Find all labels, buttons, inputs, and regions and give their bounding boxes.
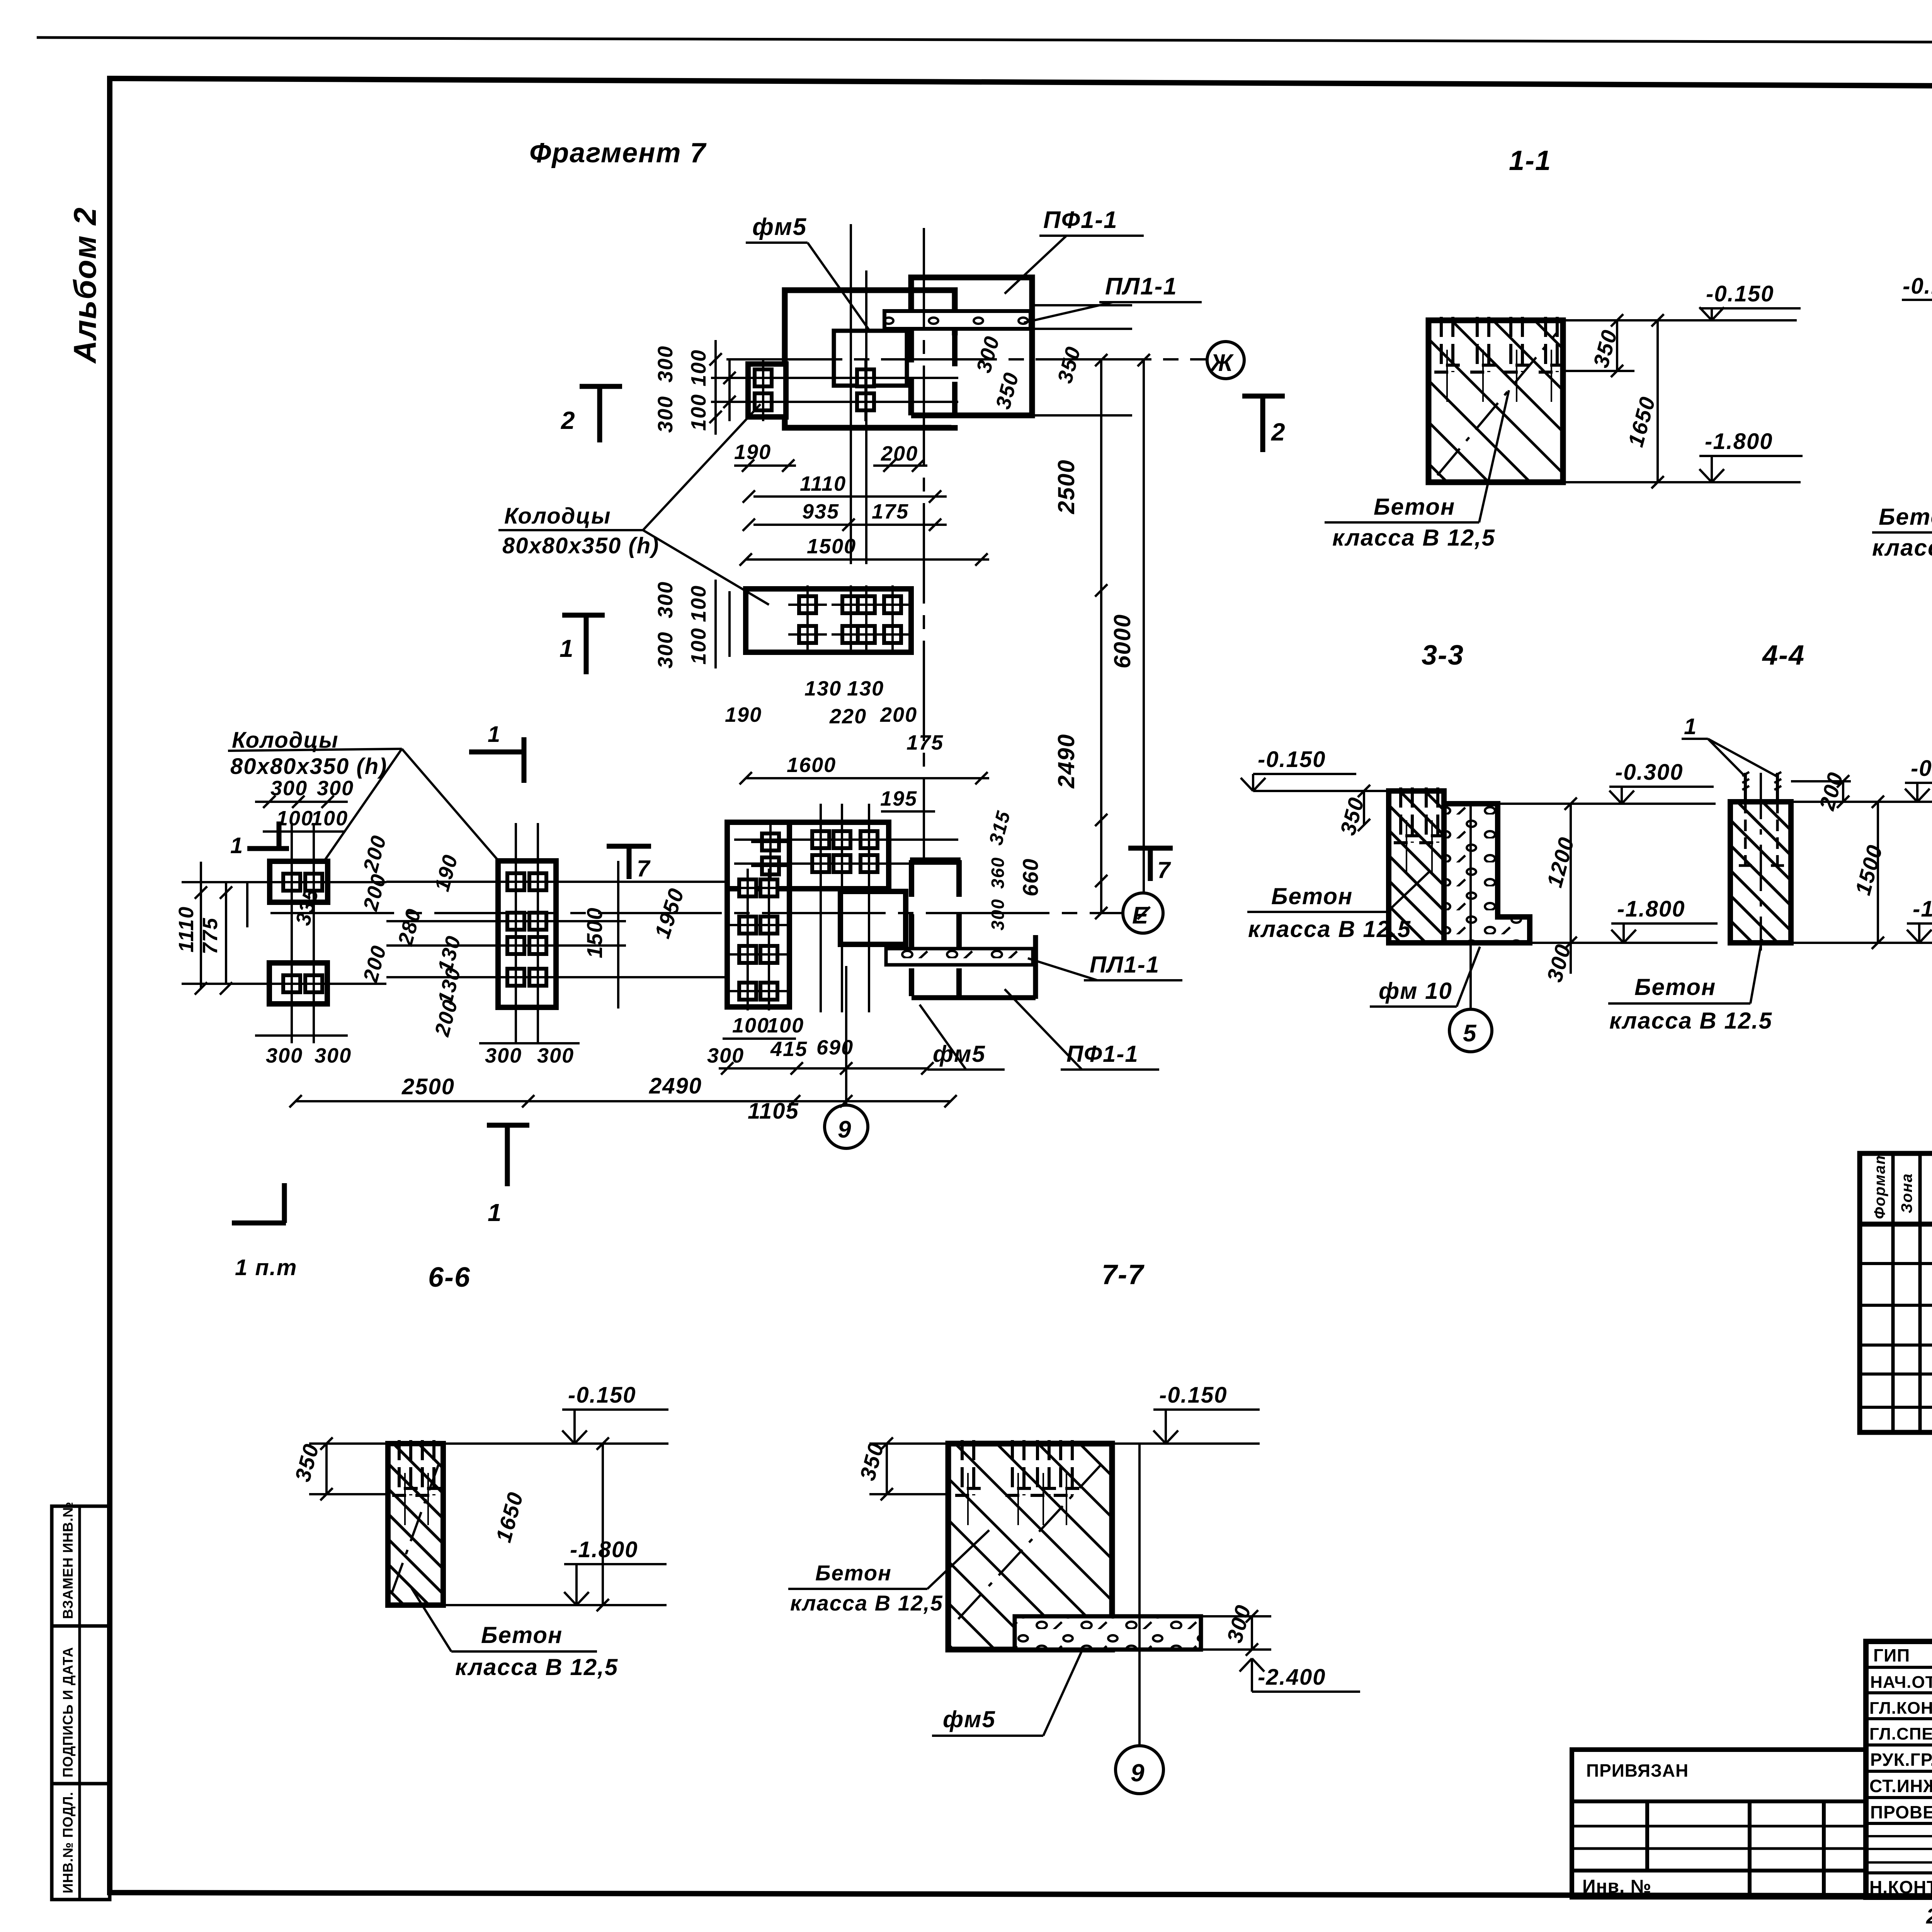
- svg-text:1600: 1600: [787, 753, 836, 777]
- svg-text:100: 100: [732, 1014, 769, 1037]
- svg-text:ГИП: ГИП: [1873, 1645, 1910, 1665]
- svg-text:класса В 12,5: класса В 12,5: [455, 1654, 618, 1680]
- hatched narrow block 6-6: [388, 1444, 443, 1605]
- svg-text:300: 300: [654, 396, 677, 433]
- slab edge extension lines to the right: [1032, 304, 1132, 306]
- left extension + dim 350 (7-7): [869, 1442, 948, 1445]
- centerline vertical of top cluster: [923, 228, 925, 862]
- dim line under 190/200: [734, 464, 796, 467]
- svg-text:1110: 1110: [800, 472, 846, 495]
- svg-text:-1.800: -1.800: [1705, 429, 1773, 454]
- right extension top (6-6): [443, 1442, 668, 1445]
- stamp box: Взамен инв.№: [52, 1506, 110, 1626]
- svg-text:-2.400: -2.400: [1258, 1665, 1326, 1690]
- svg-text:300: 300: [266, 1044, 303, 1067]
- dim 300 (3-3): [1570, 943, 1572, 974]
- svg-text:80х80х350 (h): 80х80х350 (h): [502, 533, 659, 558]
- svg-text:200: 200: [880, 703, 917, 726]
- section marker 2 (left): [580, 384, 622, 389]
- svg-text:415: 415: [770, 1037, 808, 1061]
- bottom extension right (level -1.800, 3-3): [1530, 942, 1718, 944]
- dashed tall rect (PF1-1 lower): [910, 857, 961, 863]
- foundation PF1-1 (right rect, dashed left edge): [911, 277, 1032, 415]
- svg-text:2490: 2490: [1053, 734, 1079, 789]
- svg-text:6000: 6000: [1109, 614, 1135, 668]
- inner column rect: [834, 331, 907, 386]
- svg-text:80х80х350 (h): 80х80х350 (h): [230, 754, 387, 779]
- svg-text:300: 300: [485, 1044, 522, 1067]
- dash-dot diagonal 7-7: [958, 1464, 1101, 1619]
- svg-text:7-7: 7-7: [1102, 1259, 1145, 1290]
- svg-text:4-4: 4-4: [1762, 640, 1805, 671]
- svg-text:ПРИВЯЗАН: ПРИВЯЗАН: [1586, 1760, 1689, 1781]
- inner middle rect: [840, 891, 906, 944]
- svg-text:Е: Е: [1132, 902, 1149, 929]
- svg-text:фм5: фм5: [943, 1706, 996, 1732]
- svg-text:НАЧ.ОТД: НАЧ.ОТД: [1870, 1673, 1932, 1692]
- svg-text:Ж: Ж: [1209, 350, 1234, 376]
- svg-text:2: 2: [561, 406, 576, 434]
- svg-text:ПЛ1-1: ПЛ1-1: [1090, 952, 1160, 978]
- svg-text:Н.КОНТР.: Н.КОНТР.: [1869, 1877, 1932, 1897]
- svg-text:100: 100: [687, 394, 710, 431]
- thin lines through right block bolt columns: [820, 804, 822, 1012]
- anchor bolts 7-7: [955, 1440, 981, 1525]
- svg-text:6-6: 6-6: [428, 1262, 471, 1293]
- svg-text:ПФ1-1: ПФ1-1: [1043, 207, 1118, 233]
- dim 1650: [1656, 320, 1659, 482]
- dim 1650 (6-6): [602, 1444, 604, 1605]
- svg-text:1 п.т: 1 п.т: [235, 1255, 298, 1280]
- top extension (level -0.300, 4-4): [1791, 801, 1932, 803]
- svg-text:Бетон: Бетон: [481, 1622, 563, 1648]
- hatched pier 4-4: [1730, 802, 1791, 943]
- right thick edge + bottom line: [1033, 935, 1038, 999]
- svg-text:360: 360: [988, 857, 1008, 889]
- svg-text:1: 1: [488, 722, 501, 747]
- dim 200 (4-4): [1842, 781, 1844, 802]
- protruding bolts 4-4: [1744, 773, 1747, 802]
- svg-text:Бетон: Бетон: [815, 1561, 892, 1585]
- svg-text:100: 100: [687, 349, 710, 386]
- svg-text:21541-02: 21541-02: [1926, 1904, 1932, 1928]
- slab top extension + dim 300 (7-7): [1201, 1615, 1271, 1617]
- hatched block 7-7: [948, 1444, 1112, 1650]
- svg-text:-1.800: -1.800: [570, 1537, 638, 1562]
- svg-text:660: 660: [1018, 858, 1043, 896]
- svg-text:ПОДПИСЬ И ДАТА: ПОДПИСЬ И ДАТА: [60, 1647, 76, 1777]
- title block row lines (left part): [1866, 1666, 1932, 1669]
- mid block rect: [746, 589, 911, 652]
- anchor bolts 1-1: [1434, 317, 1460, 402]
- svg-text:класса В 12,5: класса В 12,5: [1872, 535, 1932, 561]
- svg-text:300: 300: [654, 345, 677, 383]
- dash-dot diagonal 6-6: [392, 1464, 439, 1592]
- axis E circle: [1123, 893, 1163, 933]
- svg-text:7: 7: [1157, 857, 1171, 883]
- svg-text:300: 300: [988, 898, 1008, 930]
- hatched concrete block 1-1: [1429, 320, 1563, 482]
- anchor bolts top cluster: [744, 359, 782, 397]
- svg-text:9: 9: [1131, 1759, 1145, 1787]
- section marker 1 (upper): [562, 613, 605, 618]
- vertical dim line 6000: [1143, 360, 1145, 893]
- svg-text:300: 300: [654, 631, 677, 668]
- svg-text:Альбом 2: Альбом 2: [68, 207, 103, 364]
- retaining wall stem (hatched) 3-3: [1389, 791, 1444, 943]
- svg-text:фм5: фм5: [933, 1041, 986, 1067]
- bolts of right block: [751, 823, 790, 861]
- svg-text:ПРОВЕР.: ПРОВЕР.: [1870, 1802, 1932, 1822]
- svg-text:5: 5: [1463, 1020, 1477, 1047]
- svg-text:130: 130: [804, 677, 842, 700]
- centerline 7-7: [1138, 1444, 1141, 1746]
- bottom extension line: [1563, 481, 1801, 483]
- stamp box: Инв.№ подл.: [52, 1784, 110, 1900]
- top extension right (level -0.300, 3-3): [1498, 803, 1716, 805]
- svg-text:ВЗАМЕН ИНВ.№: ВЗАМЕН ИНВ.№: [60, 1502, 76, 1619]
- spec table column lines: [1891, 1153, 1895, 1432]
- svg-text:1500: 1500: [807, 535, 856, 558]
- svg-text:ИНВ.№ ПОДЛ.: ИНВ.№ ПОДЛ.: [60, 1792, 76, 1893]
- svg-text:ГЛ.СПЕЦ.: ГЛ.СПЕЦ.: [1869, 1725, 1932, 1743]
- section marker 7 (upper): [607, 844, 651, 849]
- svg-text:-0.150: -0.150: [568, 1383, 636, 1408]
- svg-text:-0.150: -0.150: [1258, 747, 1326, 772]
- svg-text:класса В 12.5: класса В 12.5: [1609, 1008, 1772, 1034]
- svg-text:175: 175: [906, 731, 944, 754]
- svg-text:-1.800: -1.800: [1913, 896, 1932, 922]
- svg-text:690: 690: [816, 1036, 854, 1059]
- svg-text:-0.150: -0.150: [1903, 274, 1932, 299]
- svg-text:1: 1: [560, 634, 574, 662]
- svg-text:1: 1: [1684, 714, 1697, 739]
- svg-text:1110: 1110: [175, 906, 198, 952]
- svg-text:9: 9: [838, 1116, 852, 1143]
- svg-text:100: 100: [767, 1014, 804, 1037]
- spec table row lines: [1860, 1222, 1932, 1227]
- svg-text:-1.800: -1.800: [1617, 896, 1685, 922]
- svg-text:ПФ1-1: ПФ1-1: [1066, 1041, 1139, 1067]
- svg-text:-0.300: -0.300: [1911, 756, 1932, 781]
- svg-text:фм 10: фм 10: [1379, 978, 1452, 1004]
- svg-text:220: 220: [829, 705, 867, 728]
- svg-text:190: 190: [725, 703, 762, 726]
- svg-text:2500: 2500: [401, 1074, 455, 1099]
- section marker 2 (right): [1242, 394, 1285, 399]
- svg-text:-0.150: -0.150: [1159, 1383, 1227, 1408]
- svg-text:Бетон: Бетон: [1879, 504, 1932, 530]
- svg-text:ПЛ1-1: ПЛ1-1: [1105, 273, 1177, 300]
- svg-text:100: 100: [311, 807, 348, 830]
- big block top part: [727, 822, 889, 889]
- svg-text:300: 300: [654, 581, 677, 618]
- spec table outer border: [1860, 1153, 1932, 1432]
- svg-text:195: 195: [880, 787, 917, 810]
- svg-text:Колодцы: Колодцы: [504, 503, 611, 529]
- svg-text:-0.300: -0.300: [1615, 760, 1683, 785]
- svg-text:2500: 2500: [1053, 459, 1079, 514]
- stamp box: Подпись и дата: [52, 1626, 110, 1784]
- section marker 7 (right, near E): [1128, 846, 1173, 851]
- section marker 1 p.t.: [282, 1183, 287, 1223]
- footing slab 7-7 (pebble): [1015, 1616, 1201, 1650]
- svg-text:СТ.ИНЖ.: СТ.ИНЖ.: [1869, 1776, 1932, 1796]
- title block outer border: [1866, 1641, 1932, 1897]
- bolt column lines: [850, 224, 852, 564]
- circle 9 (7-7): [1116, 1746, 1163, 1794]
- svg-text:Бетон: Бетон: [1374, 494, 1455, 520]
- svg-text:300: 300: [537, 1044, 574, 1067]
- svg-text:2490: 2490: [649, 1073, 702, 1099]
- svg-text:Формат: Формат: [1871, 1150, 1888, 1219]
- centerline through wall 3-3: [1469, 804, 1472, 1009]
- thin verticals through pads: [291, 823, 293, 1043]
- svg-text:100: 100: [687, 628, 710, 665]
- svg-text:7: 7: [637, 855, 651, 881]
- section marker 1 (bottom mid): [487, 1123, 529, 1128]
- foundation fm5 outline (big rect): [785, 290, 955, 428]
- svg-text:фм5: фм5: [752, 214, 807, 240]
- slab PL1-1 (pebble strip): [884, 311, 1031, 329]
- wall body with toe (pebble) 3-3: [1444, 804, 1530, 943]
- outer top trim line: [37, 37, 1932, 44]
- svg-text:Бетон: Бетон: [1634, 974, 1716, 1000]
- svg-text:РУК.ГР.: РУК.ГР.: [1870, 1750, 1932, 1770]
- svg-text:1: 1: [230, 833, 243, 858]
- left extension + dim 350 (6-6): [309, 1442, 388, 1445]
- svg-text:300: 300: [317, 777, 354, 800]
- bolt-bottom extension line: [1563, 370, 1634, 372]
- privyazan table (left of title block): [1572, 1750, 1866, 1897]
- left dim lines of top cluster: [714, 340, 717, 435]
- svg-text:1500: 1500: [582, 907, 607, 958]
- svg-text:класса В 12.5: класса В 12.5: [1248, 916, 1411, 942]
- axis E line (dash-dot): [270, 912, 1122, 914]
- svg-text:Бетон: Бетон: [1271, 883, 1353, 909]
- bottom extension (level -1.800, 4-4): [1791, 942, 1932, 944]
- mid pad rect: [498, 861, 556, 1007]
- anchor bolts 3-3: [1394, 787, 1419, 872]
- axis Ж circle: [1207, 342, 1244, 379]
- svg-text:1: 1: [488, 1199, 502, 1226]
- svg-text:935: 935: [802, 500, 839, 523]
- bottom extension right (6-6): [443, 1604, 667, 1606]
- svg-text:Зона: Зона: [1898, 1173, 1915, 1213]
- svg-text:130: 130: [847, 677, 884, 700]
- top extension right (7-7): [1112, 1442, 1260, 1445]
- svg-text:ГЛ.КОНС: ГЛ.КОНС: [1869, 1699, 1932, 1718]
- small left pad of top cluster: [748, 364, 786, 417]
- svg-text:Фрагмент 7: Фрагмент 7: [529, 138, 707, 168]
- pebble slab lower: [886, 949, 1033, 965]
- dim 350: [1616, 320, 1618, 371]
- svg-text:175: 175: [872, 500, 909, 523]
- svg-text:2: 2: [1271, 418, 1286, 446]
- vertical dim line 2500/2490: [1100, 360, 1102, 913]
- dim 1200 (3-3): [1570, 804, 1572, 943]
- svg-text:100: 100: [687, 585, 710, 622]
- svg-text:класса В 12,5: класса В 12,5: [1332, 525, 1495, 551]
- svg-text:класса В 12,5: класса В 12,5: [790, 1591, 943, 1615]
- centerline 4-4: [1760, 773, 1762, 951]
- pad L2: [269, 963, 327, 1004]
- svg-text:200: 200: [881, 442, 918, 465]
- svg-text:300: 300: [707, 1044, 744, 1067]
- big block left part: [727, 822, 789, 1007]
- circle 5 (3-3): [1449, 1009, 1492, 1052]
- dash-dot diagonal inside: [1437, 332, 1557, 475]
- top extension line: [1563, 319, 1797, 321]
- svg-text:100: 100: [276, 807, 313, 830]
- bolt row extension lines: [711, 377, 958, 379]
- dim 350 (3-3): [1363, 791, 1365, 825]
- svg-text:1-1: 1-1: [1509, 145, 1551, 176]
- svg-text:Инв. №: Инв. №: [1582, 1876, 1651, 1897]
- dim 1500 (4-4): [1877, 802, 1879, 943]
- axis Ж line: [726, 358, 1207, 361]
- svg-text:3-3: 3-3: [1422, 640, 1464, 671]
- thin horizontals through pad bolt rows: [182, 881, 386, 883]
- svg-text:300: 300: [315, 1044, 352, 1067]
- pad L1: [270, 861, 328, 902]
- left vertical dims 1110 775 335: [200, 862, 202, 989]
- anchor bolts 6-6: [392, 1440, 418, 1525]
- circle 9 with riser line: [825, 1105, 868, 1148]
- embedded bolt dashes 4-4: [1744, 802, 1747, 866]
- svg-text:-0.150: -0.150: [1706, 281, 1774, 306]
- svg-text:775: 775: [199, 917, 222, 954]
